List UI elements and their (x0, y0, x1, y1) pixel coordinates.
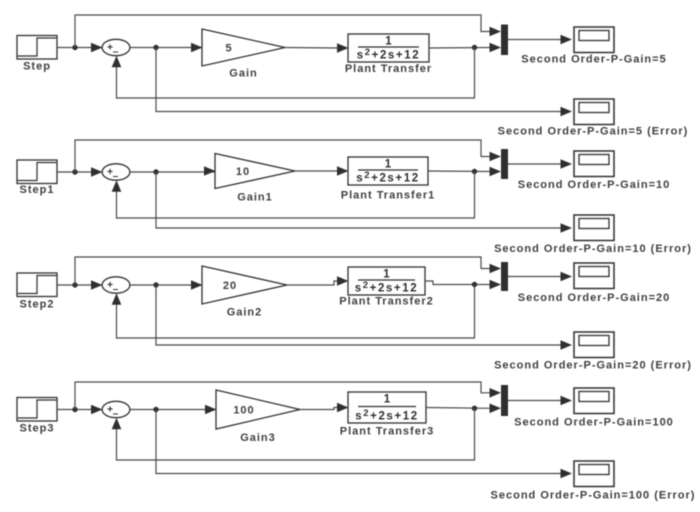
svg-text:Step2: Step2 (20, 298, 55, 310)
wire mux output to scope (508, 272, 572, 282)
wire gain output to plant (285, 43, 349, 53)
svg-text:Second Order-P-Gain=5: Second Order-P-Gain=5 (521, 54, 666, 66)
junction feedback branch (472, 45, 477, 50)
label Step3 (20, 423, 55, 435)
svg-text:Gain1: Gain1 (237, 192, 273, 204)
wire gain output to plant (287, 276, 349, 286)
mux Mux2 (501, 149, 508, 179)
label Gain (229, 68, 257, 80)
mux Mux1 (501, 25, 508, 56)
gain Gain value 5 (202, 29, 285, 66)
svg-text:Plant Transfer2: Plant Transfer2 (339, 296, 433, 308)
mux Mux4 (501, 385, 508, 416)
svg-text:1: 1 (385, 36, 392, 48)
label Second Order-P-Gain=5 (521, 54, 666, 66)
transfer function Plant Transfer1 1/(s^2+2s+12) (348, 157, 428, 185)
svg-text:5: 5 (225, 43, 232, 55)
label Plant Transfer2 (339, 296, 433, 308)
svg-text:20: 20 (223, 280, 237, 292)
svg-text:1: 1 (383, 269, 390, 281)
junction step-output branch (72, 45, 77, 50)
step source Step (17, 36, 57, 60)
label Step (23, 61, 51, 73)
svg-text:10: 10 (236, 166, 250, 178)
svg-text:–: – (113, 171, 119, 182)
wire feedback to sum minus input (112, 48, 475, 99)
junction step-output branch (72, 169, 77, 174)
label Plant Transfer3 (340, 426, 434, 438)
wire reference bypass to mux input 1 (75, 140, 501, 172)
wire sum output to gain (130, 405, 217, 415)
wire reference bypass to mux input 1 (75, 15, 501, 48)
label Second Order-P-Gain=20 (Error) (494, 360, 692, 372)
svg-text:Second Order-P-Gain=100: Second Order-P-Gain=100 (514, 417, 674, 429)
gain Gain1 value 10 (215, 154, 295, 189)
label Gain2 (227, 307, 263, 319)
svg-text:–: – (113, 284, 119, 295)
wire error signal to error scope (156, 48, 572, 117)
wire error signal to error scope (156, 172, 572, 233)
wire plant output to mux input 2 (425, 280, 501, 290)
wire plant output to mux input 2 (426, 404, 501, 414)
scope Second Order-P-Gain=10 (Error) (574, 215, 614, 241)
wire mux output to scope (508, 159, 572, 169)
scope Second Order-P-Gain=10 (574, 151, 614, 177)
transfer function Plant Transfer 1/(s^2+2s+12) (348, 34, 429, 62)
wire reference bypass to mux input 1 (75, 257, 501, 285)
label Gain1 (237, 192, 273, 204)
label Second Order-P-Gain=100 (514, 417, 674, 429)
wire Step output to sum (57, 43, 103, 53)
step source Step1 (17, 160, 57, 184)
label Second Order-P-Gain=5 (Error) (498, 126, 689, 138)
scope Second Order-P-Gain=100 (574, 388, 614, 414)
svg-text:1: 1 (385, 159, 392, 171)
scope Second Order-P-Gain=5 (Error) (574, 99, 614, 125)
wire feedback to sum minus input (112, 285, 475, 339)
gain Gain2 value 20 (202, 266, 287, 304)
wire Step1 output to sum (57, 167, 103, 177)
svg-text:Gain: Gain (229, 68, 257, 80)
wire sum output to gain (130, 43, 203, 53)
transfer function Plant Transfer3 1/(s^2+2s+12) (348, 392, 426, 423)
wire sum output to gain (130, 280, 203, 290)
transfer function Plant Transfer2 1/(s^2+2s+12) (348, 267, 425, 295)
scope Second Order-P-Gain=5 (574, 27, 614, 53)
wire plant output to mux input 2 (429, 43, 501, 53)
svg-text:100: 100 (233, 405, 254, 417)
wire feedback to sum minus input (112, 172, 475, 219)
label Gain3 (240, 432, 276, 444)
wire Step2 output to sum (57, 280, 103, 290)
label Second Order-P-Gain=20 (518, 292, 671, 304)
sum block (+/-) (102, 277, 130, 295)
wire error signal to error scope (156, 285, 572, 350)
svg-text:Step: Step (23, 61, 51, 73)
label Second Order-P-Gain=10 (Error) (494, 243, 692, 255)
wire mux output to scope (508, 396, 572, 406)
gain Gain3 value 100 (216, 390, 300, 429)
label Second Order-P-Gain=10 (518, 179, 671, 191)
step source Step2 (17, 273, 57, 297)
junction step-output branch (72, 282, 77, 287)
sum block (+/-) (102, 401, 130, 419)
svg-text:Second Order-P-Gain=5 (Error): Second Order-P-Gain=5 (Error) (498, 126, 689, 138)
sum block (+/-) (102, 164, 130, 182)
label Step1 (20, 184, 55, 196)
label Plant Transfer (345, 63, 432, 75)
mux Mux3 (501, 262, 508, 291)
junction feedback branch (472, 282, 477, 287)
svg-text:Plant Transfer: Plant Transfer (345, 63, 432, 75)
scope Second Order-P-Gain=20 (574, 263, 614, 289)
svg-text:Gain3: Gain3 (240, 432, 276, 444)
svg-text:–: – (113, 409, 119, 420)
junction error branch (153, 169, 158, 174)
junction feedback branch (472, 406, 477, 411)
wire mux output to scope (508, 35, 572, 45)
wire error signal to error scope (156, 410, 572, 479)
svg-text:Gain2: Gain2 (227, 307, 263, 319)
wire gain output to plant (300, 403, 349, 413)
step source Step3 (17, 398, 57, 422)
svg-text:–: – (113, 47, 119, 58)
junction error branch (153, 407, 158, 412)
scope Second Order-P-Gain=100 (Error) (574, 461, 614, 487)
svg-text:Step1: Step1 (20, 184, 55, 196)
wire gain output to plant (295, 166, 349, 176)
svg-text:Step3: Step3 (20, 423, 55, 435)
wire plant output to mux input 2 (428, 167, 501, 177)
svg-text:Second Order-P-Gain=20 (Error): Second Order-P-Gain=20 (Error) (494, 360, 692, 372)
svg-text:Second Order-P-Gain=20: Second Order-P-Gain=20 (518, 292, 671, 304)
junction step-output branch (72, 407, 77, 412)
svg-text:Plant Transfer3: Plant Transfer3 (340, 426, 434, 438)
junction feedback branch (472, 169, 477, 174)
svg-text:Plant Transfer1: Plant Transfer1 (341, 190, 435, 202)
wire Step3 output to sum (57, 405, 103, 415)
label Plant Transfer1 (341, 190, 435, 202)
scope Second Order-P-Gain=20 (Error) (574, 332, 614, 358)
sum block (+/-) (102, 39, 130, 57)
svg-text:Second Order-P-Gain=100 (Error: Second Order-P-Gain=100 (Error) (491, 490, 696, 502)
label Second Order-P-Gain=100 (Error) (491, 490, 696, 502)
svg-text:Second Order-P-Gain=10 (Error): Second Order-P-Gain=10 (Error) (494, 243, 692, 255)
wire sum output to gain (130, 166, 216, 176)
svg-text:Second Order-P-Gain=10: Second Order-P-Gain=10 (518, 179, 671, 191)
label Step2 (20, 298, 55, 310)
junction error branch (153, 282, 158, 287)
wire feedback to sum minus input (112, 408, 475, 460)
junction error branch (153, 45, 158, 50)
svg-text:1: 1 (384, 394, 391, 406)
wire reference bypass to mux input 1 (75, 382, 501, 410)
